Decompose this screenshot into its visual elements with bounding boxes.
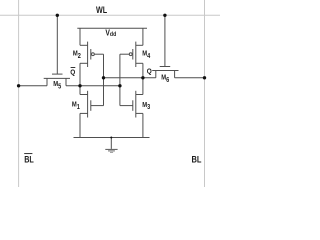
label M2 — [73, 50, 81, 60]
wire M2 drain to M1 drain (node QB rail) — [79, 63, 81, 94]
node Q label — [147, 68, 152, 76]
junction: M5 gate on WL — [56, 14, 59, 17]
node QB label — [70, 68, 75, 77]
wire M3 source to ground rail — [142, 113, 144, 137]
transistor M3 (NMOS, right pull-down) — [133, 91, 143, 118]
transistor M1 (NMOS, left pull-down) — [80, 91, 91, 118]
bit line BLbar wire (left, complementary) — [18, 0, 20, 187]
wire BLbar to M5 — [19, 85, 47, 87]
ground symbol — [105, 138, 117, 153]
wire M1 source to ground rail — [79, 113, 81, 137]
label M1 — [72, 101, 80, 111]
wire M3 gate to right gate rail — [120, 105, 133, 107]
transistor M4 (PMOS, right pull-up) — [129, 42, 143, 67]
svg-text:Q: Q — [70, 69, 75, 77]
label Vdd — [105, 28, 116, 38]
junction: M6 gate on WL — [163, 14, 166, 17]
wire cross-couple: node Q to left gate rail — [104, 77, 156, 79]
label M5 — [53, 81, 61, 91]
junction: M5 on BLbar — [17, 84, 20, 87]
wire M4 drain to M3 drain (node Q rail) — [142, 63, 144, 94]
wire M6 to BL — [175, 77, 205, 79]
label BLbar — [24, 154, 34, 165]
label M3 — [142, 101, 150, 111]
word line WL wire — [0, 14, 220, 16]
junction: left gate rail on Q wire — [102, 76, 105, 79]
wire ground rail — [74, 137, 150, 139]
transistor M6 (NMOS access, right) — [152, 15, 178, 78]
wire M4 gate to right gate rail — [120, 53, 129, 55]
bit line BL wire (right) — [204, 0, 206, 187]
junction: M6 on BL — [203, 76, 206, 79]
transistor M2 (PMOS, left pull-up) — [80, 42, 94, 67]
svg-text:BL: BL — [192, 154, 202, 165]
wire M2 gate to left gate rail — [94, 53, 103, 55]
junction: right gate rail on cross wire — [118, 84, 121, 87]
junction: Q rail on Q wire — [141, 76, 144, 79]
transistor M5 (NMOS access, left) — [44, 15, 70, 86]
wire Vdd to M4 source — [142, 28, 144, 45]
junction: QB rail on cross wire — [78, 84, 81, 87]
label M6 — [161, 74, 169, 84]
svg-text:WL: WL — [96, 5, 107, 15]
wire left gate rail (gates of M1,M2) — [103, 54, 105, 105]
Vdd supply rail wire — [77, 27, 147, 29]
label BL — [192, 154, 202, 165]
svg-text:Q: Q — [147, 68, 152, 76]
wire M1 gate to left gate rail — [91, 105, 104, 107]
label WL — [96, 5, 107, 15]
wire Vdd to M2 source — [79, 28, 81, 45]
junction: ground stub on rail — [110, 137, 112, 139]
svg-text:BL: BL — [24, 154, 34, 165]
wire right gate rail (gates of M3,M4) — [119, 54, 121, 105]
label M4 — [142, 50, 150, 60]
wire cross-couple: node QB to right gate rail — [66, 85, 120, 87]
